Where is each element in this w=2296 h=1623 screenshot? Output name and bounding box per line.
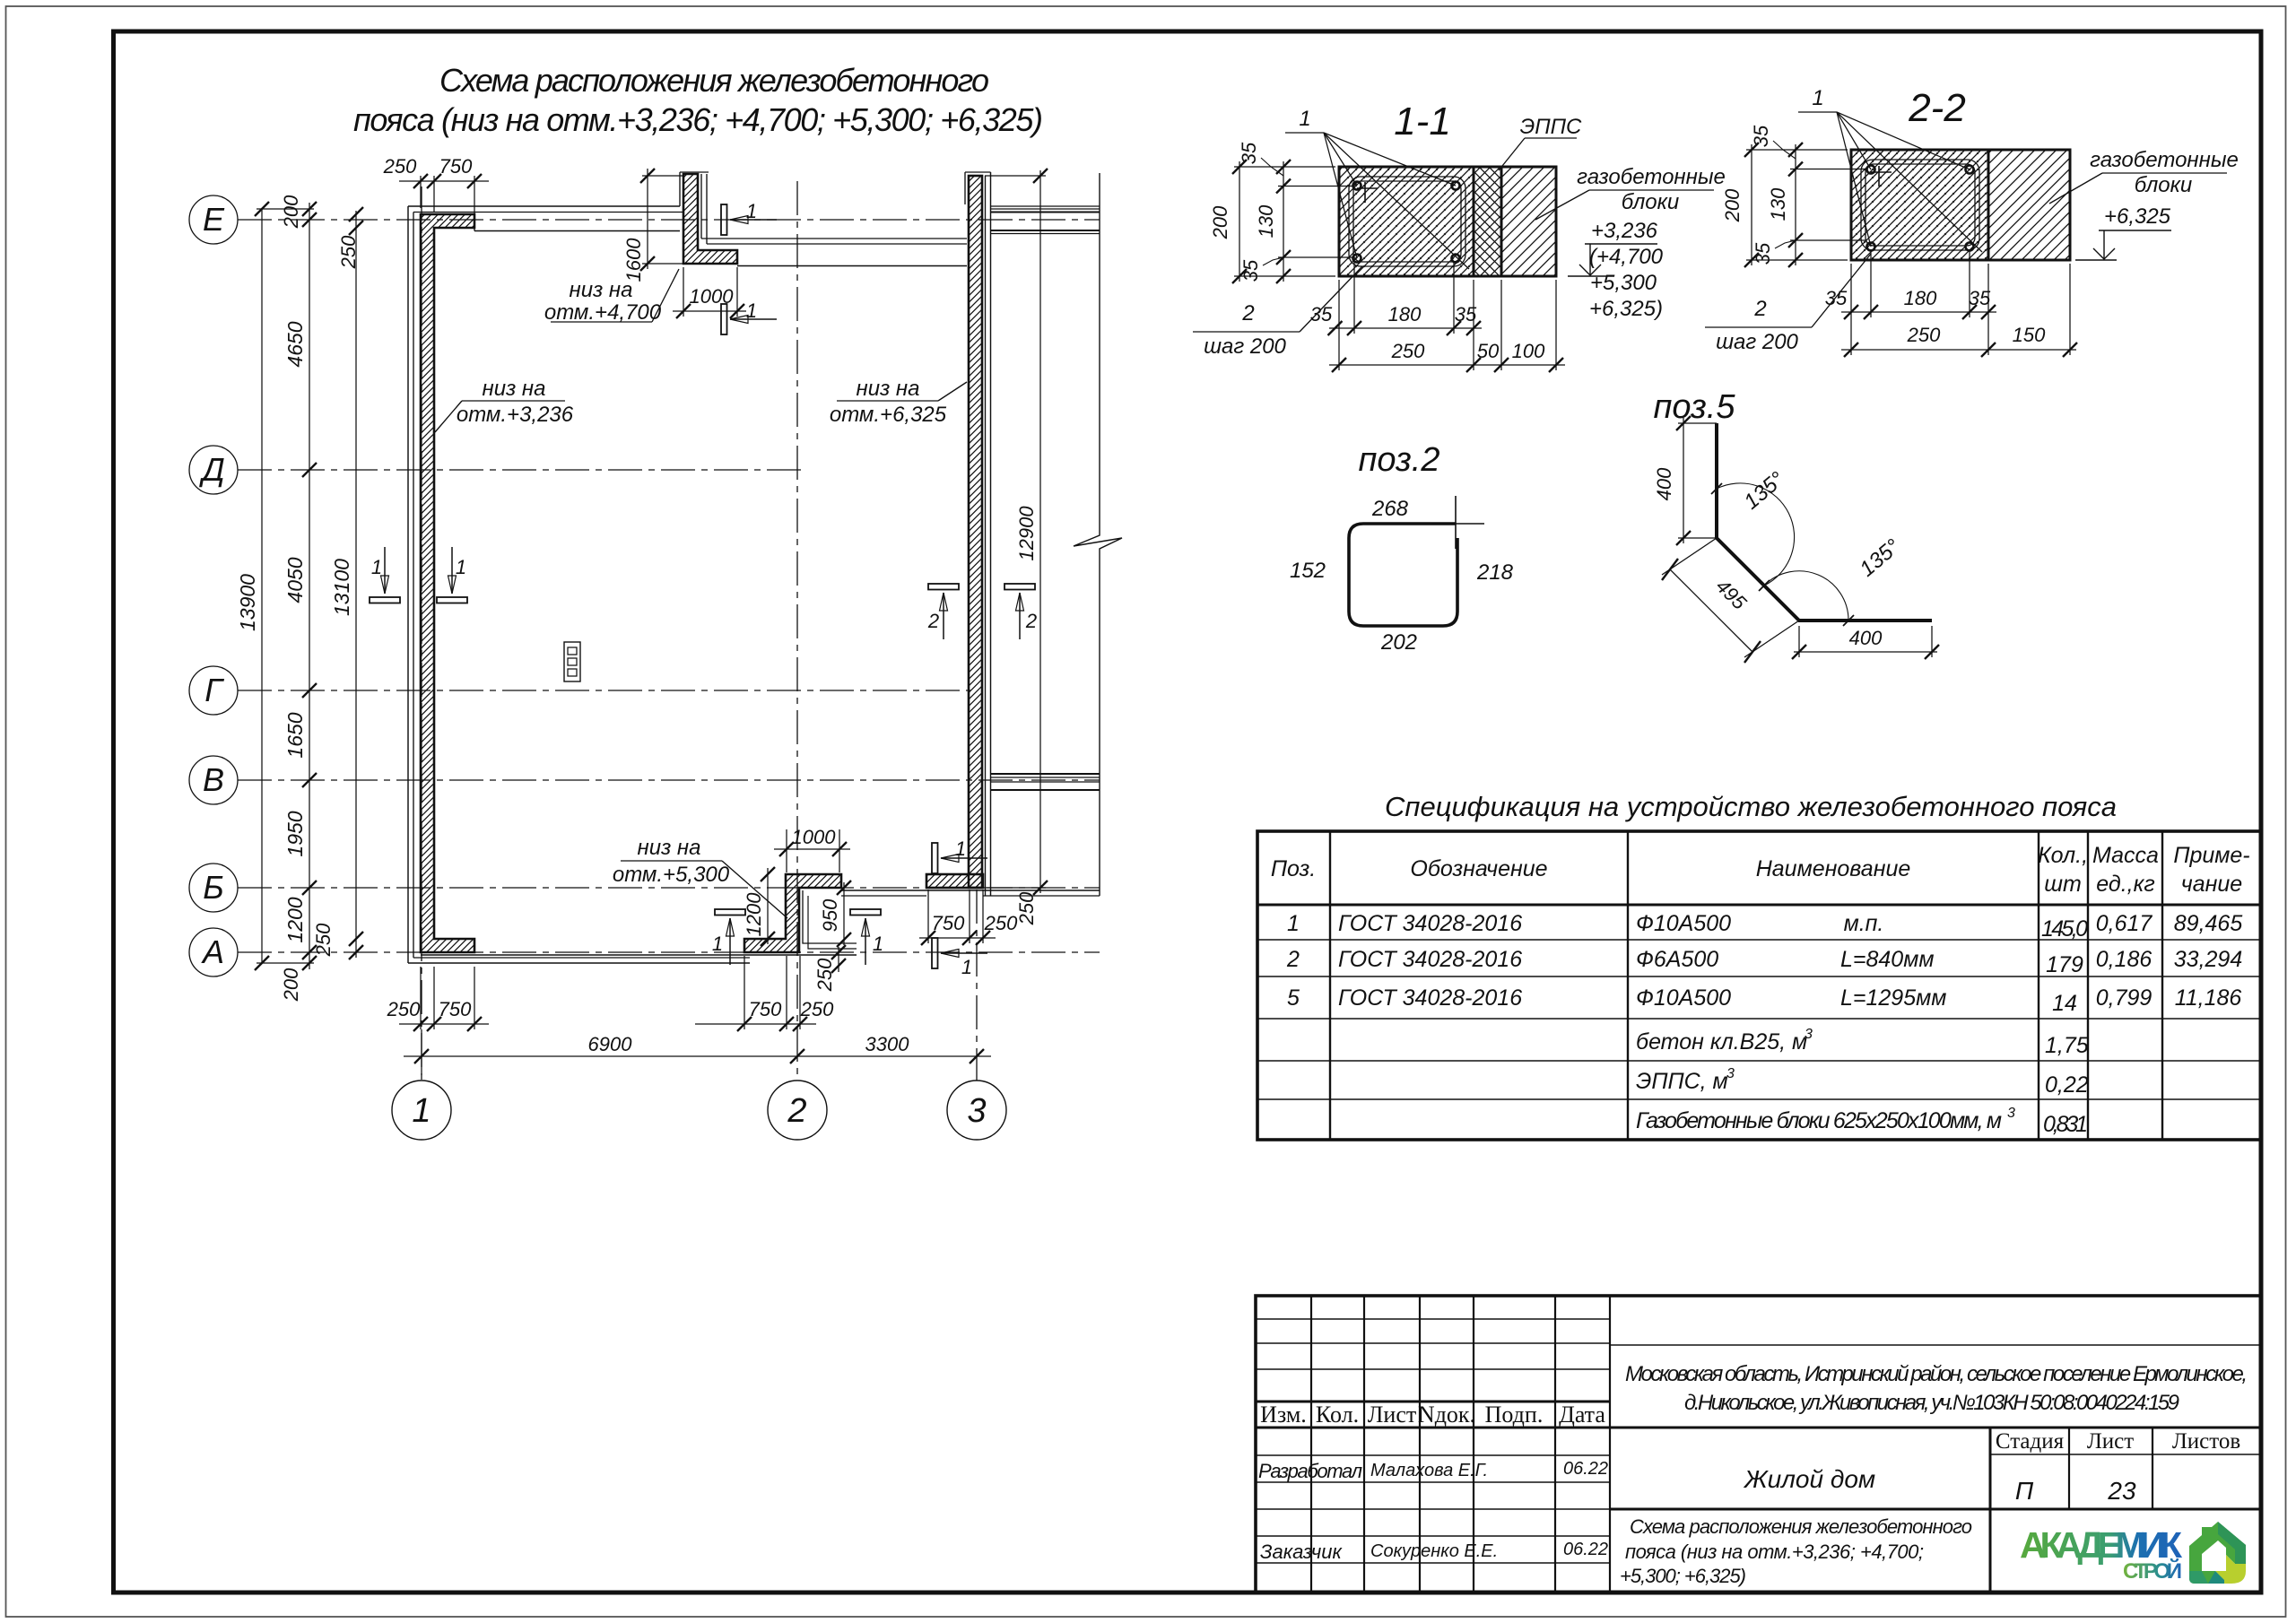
svg-text:35: 35: [1750, 125, 1772, 147]
svg-text:+3,236: +3,236: [1591, 219, 1658, 243]
section 2-2 left dim 35/130/35: [1795, 144, 1796, 265]
title block right part dividers: [1610, 1344, 2261, 1346]
svg-text:1: 1: [961, 956, 972, 978]
svg-text:2: 2: [1241, 301, 1254, 325]
section 2-2 concrete belt (hatched): [1851, 150, 1988, 260]
svg-text:1: 1: [1299, 107, 1310, 131]
svg-text:35: 35: [1752, 242, 1774, 265]
svg-text:Малахова Е.Г.: Малахова Е.Г.: [1370, 1461, 1488, 1480]
title block left rows: [1256, 1318, 1610, 1320]
svg-text:шаг 200: шаг 200: [1204, 334, 1286, 359]
svg-text:2: 2: [927, 610, 939, 632]
svg-text:200: 200: [280, 968, 302, 1002]
section 2-2 bottom dim 250/150: [1841, 349, 2076, 351]
thin offsets right of L-segment: [700, 174, 702, 239]
svg-text:218: 218: [1476, 560, 1514, 585]
axis line 3 (vertical): [976, 890, 978, 1081]
axis line Г: [238, 690, 970, 691]
dim line 13100 (left): [355, 211, 357, 958]
svg-text:шаг 200: шаг 200: [1716, 330, 1798, 354]
svg-text:ед.,кг: ед.,кг: [2096, 872, 2154, 897]
svg-text:150: 150: [2013, 324, 2046, 346]
axis circle 3: [947, 1081, 1006, 1140]
svg-text:3: 3: [1805, 1027, 1813, 1042]
svg-text:0,831: 0,831: [2043, 1112, 2088, 1137]
svg-text:3: 3: [2007, 1106, 2015, 1121]
axis circle 2: [768, 1081, 827, 1140]
svg-text:Масса: Масса: [2092, 843, 2159, 868]
rebar bar: [1452, 182, 1460, 190]
svg-text:Обозначение: Обозначение: [1410, 856, 1547, 881]
svg-text:130: 130: [1767, 187, 1789, 221]
svg-text:1000: 1000: [792, 826, 837, 848]
section mark 1 (up arrow): [715, 909, 745, 916]
svg-text:поз.5: поз.5: [1654, 388, 1736, 426]
concrete belt column 3 (hatched band): [969, 176, 982, 888]
В wall right of column 3: [991, 773, 1100, 775]
extension lines from Е to left dims: [257, 208, 314, 210]
svg-text:250: 250: [387, 998, 421, 1020]
svg-text:1: 1: [955, 838, 966, 860]
section 2-2 bottom dim 35/180/35: [1841, 311, 1996, 313]
section mark 1 (down arrow): [437, 597, 467, 603]
svg-text:(+4,700: (+4,700: [1589, 245, 1664, 269]
svg-text:1200: 1200: [283, 897, 307, 942]
axis line А: [238, 951, 1100, 953]
svg-text:180: 180: [1904, 287, 1937, 309]
axis circle Д: [189, 446, 238, 494]
svg-text:2: 2: [1286, 947, 1300, 972]
svg-text:Схема расположения железобетон: Схема расположения железобетонного: [1630, 1515, 1972, 1538]
svg-text:100: 100: [1512, 340, 1545, 362]
поз.5 angle 135 arc (bottom): [1764, 571, 1848, 621]
section mark 1 (left arrow): [721, 204, 727, 235]
axis circle А: [189, 928, 238, 976]
svg-text:Заказчик: Заказчик: [1260, 1541, 1343, 1563]
svg-text:250: 250: [1015, 891, 1038, 925]
svg-text:152: 152: [1290, 559, 1326, 583]
svg-text:Листов: Листов: [2172, 1429, 2240, 1454]
svg-text:В: В: [203, 761, 224, 798]
svg-text:ЭППС, м: ЭППС, м: [1636, 1069, 1728, 1094]
svg-text:пояса (низ на отм.+3,236; +4,7: пояса (низ на отм.+3,236; +4,700;: [1625, 1541, 1924, 1563]
svg-text:Г: Г: [204, 672, 224, 708]
svg-text:ГОСТ 34028-2016: ГОСТ 34028-2016: [1338, 985, 1522, 1011]
rebar bar: [1452, 255, 1460, 263]
dim 12900 (right of column 3): [1039, 170, 1041, 893]
svg-text:1600: 1600: [622, 238, 645, 282]
svg-text:750: 750: [932, 912, 965, 934]
dim 1000 at L-segment: [673, 310, 746, 312]
svg-text:Лист: Лист: [2087, 1429, 2134, 1454]
svg-text:Сокуренко Е.Е.: Сокуренко Е.Е.: [1370, 1541, 1498, 1561]
level mark +3,236 (+4,700 +5,300 +6,325): [1568, 275, 1614, 277]
svg-text:1: 1: [746, 299, 757, 322]
поз.5 dim 400 (horizontal): [1794, 651, 1937, 653]
Е wall right of column 3: [991, 205, 1100, 207]
svg-text:5: 5: [1287, 985, 1300, 1011]
svg-text:Жилой дом: Жилой дом: [1743, 1465, 1875, 1493]
svg-text:130: 130: [1255, 204, 1277, 238]
svg-text:Б: Б: [203, 869, 223, 906]
section 2-2 gas-concrete block (hatched): [1988, 150, 2070, 260]
svg-text:Поз.: Поз.: [1271, 856, 1316, 881]
section 1-1 bottom dim 250/50/100: [1329, 364, 1565, 366]
section mark 2 (up arrow): [928, 584, 959, 590]
svg-text:Кол.,: Кол.,: [2038, 843, 2088, 868]
dim line axis spacings (left): [309, 203, 310, 969]
top wall inner face line: [474, 230, 680, 232]
axis line Д: [238, 469, 801, 471]
svg-text:400: 400: [1849, 627, 1883, 649]
section 1-1 left dim 200: [1239, 161, 1240, 282]
svg-text:3300: 3300: [865, 1033, 910, 1055]
svg-text:35: 35: [1969, 287, 1991, 309]
title block left columns: [1310, 1296, 1312, 1593]
rebar bar: [1353, 182, 1361, 190]
rebar bar: [1966, 243, 1974, 251]
svg-text:+6,325): +6,325): [1589, 297, 1663, 321]
svg-text:1: 1: [371, 556, 382, 578]
svg-text:89,465: 89,465: [2174, 911, 2243, 936]
dim 1000 above column 2 step: [774, 848, 850, 850]
dim 950 at column 2 step: [843, 882, 845, 945]
svg-text:200: 200: [280, 195, 302, 229]
svg-text:низ на: низ на: [857, 377, 920, 401]
svg-text:Д: Д: [198, 451, 224, 488]
svg-text:Наименование: Наименование: [1756, 856, 1911, 881]
specification table grid: [1257, 831, 2261, 1140]
nested step lines inside column 2 step: [803, 890, 857, 943]
svg-text:L=840мм: L=840мм: [1840, 947, 1935, 972]
dim 1600 at L-segment: [647, 169, 648, 269]
svg-text:250: 250: [984, 912, 1018, 934]
dim line 13900 (left): [261, 209, 263, 963]
svg-text:L=1295мм: L=1295мм: [1840, 985, 1946, 1011]
section 2-2 rebar cage: [1861, 160, 1979, 250]
поз.5 angle 135 arc (top): [1717, 483, 1795, 586]
left wall outer face lines: [407, 206, 409, 963]
bottom dim 750+250 at column 2: [737, 1017, 752, 1031]
svg-text:0,22: 0,22: [2045, 1072, 2089, 1098]
svg-text:250: 250: [383, 155, 417, 178]
rebar bar: [1867, 166, 1875, 174]
svg-text:+5,300: +5,300: [1590, 271, 1657, 295]
section 1-1 rebar cage: [1349, 177, 1465, 266]
axis circle В: [189, 756, 238, 804]
svg-text:П: П: [2015, 1477, 2034, 1505]
svg-text:6900: 6900: [588, 1033, 633, 1055]
svg-text:Е: Е: [203, 201, 225, 238]
поз.2 bar end marks: [1455, 496, 1457, 549]
svg-text:1: 1: [873, 933, 883, 955]
svg-text:пояса (низ на отм.+3,236;: пояса (низ на отм.+3,236; +4,700; +5,300…: [353, 101, 1043, 138]
svg-text:250: 250: [312, 923, 335, 957]
svg-text:д.Никольское, ул.Живописная, у: д.Никольское, ул.Живописная, уч.№103КН 5…: [1684, 1391, 2179, 1415]
svg-text:блоки: блоки: [2135, 173, 2193, 197]
axis line 2 (vertical): [796, 181, 798, 1081]
svg-text:750: 750: [749, 998, 782, 1020]
svg-text:33,294: 33,294: [2174, 947, 2242, 972]
svg-text:250: 250: [800, 998, 834, 1020]
svg-text:250: 250: [1391, 340, 1425, 362]
section mark 1 (left arrow): [721, 304, 727, 334]
logo house icon: [2189, 1522, 2246, 1584]
svg-text:ГОСТ 34028-2016: ГОСТ 34028-2016: [1338, 911, 1522, 936]
svg-text:блоки: блоки: [1622, 190, 1680, 214]
svg-text:400: 400: [1653, 467, 1675, 500]
svg-text:Ф10А500: Ф10А500: [1636, 911, 1731, 936]
svg-text:Подп.: Подп.: [1485, 1402, 1544, 1428]
bottom dim 6900+3300: [404, 1055, 991, 1057]
section mark 2 (up arrow): [1004, 584, 1035, 590]
svg-text:Газобетонные блоки 625х250х100: Газобетонные блоки 625х250х100мм, м: [1636, 1108, 2002, 1133]
bottom dim 250+750 at column 1: [399, 1023, 489, 1025]
svg-text:газобетонные: газобетонные: [1577, 165, 1726, 189]
axis circle Е: [189, 195, 238, 244]
svg-text:Ф6А500: Ф6А500: [1636, 947, 1718, 972]
svg-text:1: 1: [1812, 86, 1823, 110]
svg-text:3: 3: [967, 1092, 986, 1130]
svg-text:+6,325: +6,325: [2104, 204, 2171, 229]
svg-text:1: 1: [456, 556, 466, 578]
поз.5 dim 400 (vertical): [1683, 418, 1684, 543]
svg-text:179: 179: [2046, 952, 2083, 977]
svg-text:2: 2: [1025, 610, 1037, 632]
svg-text:газобетонные: газобетонные: [2090, 148, 2239, 172]
svg-text:200: 200: [1209, 205, 1231, 239]
svg-text:2-2: 2-2: [1908, 86, 1966, 130]
bottom wall lines along А: [408, 962, 750, 964]
stair icon in plan: [564, 642, 580, 681]
svg-text:250: 250: [1907, 324, 1941, 346]
svg-text:1: 1: [712, 933, 723, 955]
svg-text:11,186: 11,186: [2175, 985, 2242, 1011]
svg-text:145,0: 145,0: [2041, 916, 2088, 942]
svg-text:35: 35: [1310, 303, 1333, 325]
section mark 1 (left arrow): [932, 843, 938, 873]
top dim 250+750 at column 1: [399, 180, 489, 182]
svg-text:чание: чание: [2181, 872, 2242, 897]
svg-text:А: А: [201, 933, 224, 970]
rebar bar: [1353, 255, 1361, 263]
concrete belt at Б near column 3 (hatched band): [926, 874, 983, 888]
svg-text:202: 202: [1380, 630, 1417, 655]
svg-text:отм.+6,325: отм.+6,325: [830, 403, 947, 427]
dim 750+250 below Б belt at column 3: [919, 937, 996, 939]
svg-text:2: 2: [787, 1092, 806, 1130]
svg-text:750: 750: [439, 998, 472, 1020]
level mark +6,325 (2-2): [2075, 259, 2117, 261]
svg-text:Стадия: Стадия: [1996, 1429, 2065, 1454]
svg-text:35: 35: [1238, 142, 1260, 164]
svg-text:0,186: 0,186: [2096, 947, 2152, 972]
svg-text:шт: шт: [2044, 872, 2082, 897]
Б wall right wing lines: [926, 890, 1100, 891]
svg-text:06.22: 06.22: [1563, 1540, 1608, 1559]
svg-text:4050: 4050: [283, 557, 307, 603]
rebar bar: [1867, 243, 1875, 251]
svg-text:бетон кл.В25, м: бетон кл.В25, м: [1636, 1029, 1807, 1055]
section 1-1 concrete belt (hatched): [1339, 167, 1474, 276]
svg-text:1,75: 1,75: [2045, 1033, 2089, 1058]
axis line 1 (vertical): [421, 187, 422, 1081]
section 1-1 gas-concrete block (hatched): [1501, 167, 1556, 276]
column 3 wall thin lines: [964, 172, 966, 204]
concrete belt: Е-axis return (hatched band): [421, 214, 474, 952]
section 2-2 left dim 200: [1751, 144, 1752, 265]
svg-text:35: 35: [1239, 259, 1262, 282]
svg-text:4650: 4650: [283, 321, 307, 367]
svg-text:250: 250: [337, 235, 360, 269]
svg-text:14: 14: [2052, 991, 2077, 1016]
svg-text:1: 1: [746, 200, 757, 222]
bar end mark: [1871, 171, 1892, 173]
svg-text:268: 268: [1371, 497, 1409, 521]
svg-text:Разработал: Разработал: [1258, 1460, 1362, 1482]
bar end mark: [1357, 187, 1378, 189]
svg-text:1-1: 1-1: [1394, 100, 1451, 143]
svg-text:м.п.: м.п.: [1844, 911, 1884, 936]
axis circle 1: [392, 1081, 451, 1140]
поз.5 dim 495 (diagonal): [1670, 569, 1752, 652]
top wall outer face lines along Е: [408, 205, 680, 207]
svg-text:Лист: Лист: [1368, 1402, 1416, 1428]
axis line Е (horizontal): [238, 219, 1100, 221]
поз.5 bent bar: [1717, 423, 1932, 621]
svg-text:Спецификация на устройство: Спецификация на устройство железобетонно…: [1385, 791, 2117, 822]
svg-text:СТРОЙ: СТРОЙ: [2123, 1558, 2182, 1584]
svg-text:низ на: низ на: [570, 278, 633, 302]
svg-text:3: 3: [1726, 1066, 1735, 1081]
dim 1200 at column 2 step: [767, 868, 769, 944]
rebar bar: [1966, 166, 1974, 174]
svg-text:13100: 13100: [330, 559, 353, 616]
svg-text:+5,300; +6,325): +5,300; +6,325): [1620, 1565, 1746, 1587]
section mark 1 (left arrow): [932, 938, 938, 968]
svg-text:23: 23: [2107, 1477, 2136, 1505]
svg-text:250: 250: [813, 958, 836, 992]
svg-text:поз.2: поз.2: [1359, 441, 1440, 479]
svg-text:Ф10А500: Ф10А500: [1636, 985, 1731, 1011]
wall lines right of step at Б: [841, 890, 926, 891]
section mark 1 (down arrow): [370, 597, 400, 603]
svg-text:Схема расположения железобет: Схема расположения железобетонного: [439, 62, 989, 99]
section 1-1 EPPS strip (cross-hatched): [1474, 167, 1501, 276]
svg-text:низ на: низ на: [483, 377, 546, 401]
svg-text:Приме-: Приме-: [2173, 843, 2249, 868]
поз.2 bent bar (rounded square): [1349, 524, 1457, 626]
svg-text:ЭППС: ЭППС: [1520, 115, 1582, 139]
svg-text:Кол.: Кол.: [1316, 1402, 1359, 1428]
svg-text:отм.+5,300: отм.+5,300: [613, 863, 730, 887]
axis line В: [238, 779, 1100, 781]
svg-text:180: 180: [1388, 303, 1422, 325]
svg-text:Дата: Дата: [1559, 1402, 1605, 1428]
title block outer: [1256, 1296, 2261, 1593]
section 1-1 left dim 35/130/35: [1283, 161, 1284, 282]
svg-text:Московская область, Истринский: Московская область, Истринский район, се…: [1625, 1362, 2248, 1386]
svg-text:низ на: низ на: [638, 836, 701, 860]
svg-text:отм.+3,236: отм.+3,236: [457, 403, 574, 427]
section 1-1 bottom dim 35/180/35: [1329, 327, 1482, 329]
axis circle Г: [189, 666, 238, 715]
svg-text:Nдок.: Nдок.: [1418, 1402, 1475, 1428]
svg-text:ГОСТ 34028-2016: ГОСТ 34028-2016: [1338, 947, 1522, 972]
svg-text:200: 200: [1721, 188, 1744, 222]
axis line Б: [238, 887, 1100, 889]
axis circle Б: [189, 864, 238, 912]
section mark 1 (up arrow): [850, 909, 881, 916]
svg-text:отм.+4,700: отм.+4,700: [544, 300, 662, 325]
svg-text:0,799: 0,799: [2096, 985, 2152, 1011]
svg-text:1950: 1950: [283, 811, 307, 856]
svg-text:Изм.: Изм.: [1260, 1402, 1307, 1428]
svg-text:1650: 1650: [283, 712, 307, 758]
dim 250 below А at column 2 step: [838, 947, 839, 972]
concrete belt step at column 2 (отм.+5,300): [744, 874, 841, 952]
building right edge with break: [1074, 173, 1122, 896]
svg-text:1: 1: [412, 1092, 430, 1130]
svg-text:1: 1: [1287, 911, 1300, 936]
svg-text:0,617: 0,617: [2096, 911, 2153, 936]
svg-text:12900: 12900: [1015, 506, 1038, 561]
svg-text:06.22: 06.22: [1563, 1459, 1608, 1479]
wall lines from L-segment to column 3: [701, 238, 967, 239]
svg-text:950: 950: [819, 898, 841, 932]
concrete belt L-segment (отм.+4,700): [683, 174, 737, 264]
svg-text:50: 50: [1477, 340, 1500, 362]
svg-text:750: 750: [439, 155, 473, 178]
svg-text:13900: 13900: [236, 574, 259, 631]
svg-text:2: 2: [1753, 297, 1766, 321]
